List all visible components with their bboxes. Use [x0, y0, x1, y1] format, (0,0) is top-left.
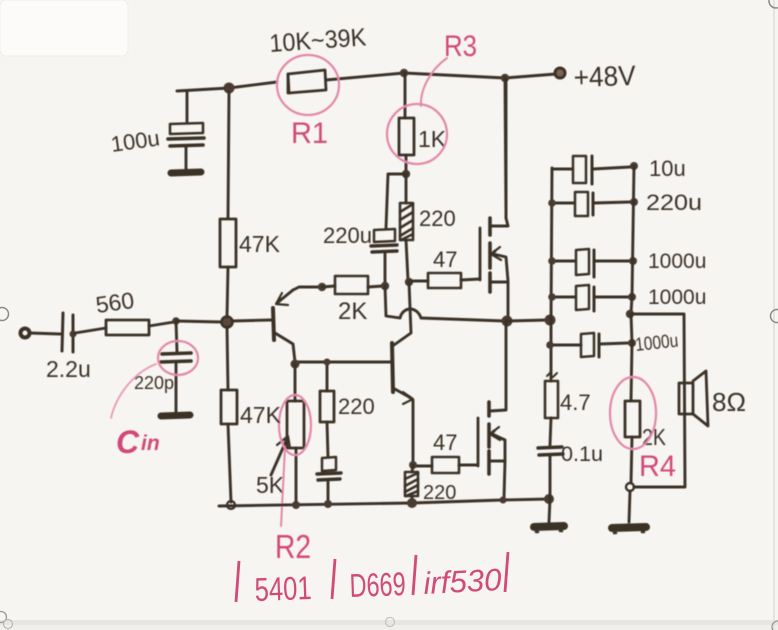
svg-text:8Ω: 8Ω: [712, 387, 746, 417]
label R2 (pink) with leader: [275, 448, 311, 565]
transistor Q1 collector: [275, 333, 295, 362]
wire top rail right of R1: [326, 73, 556, 80]
wire right rail to 2K R4: [631, 314, 632, 401]
annotation circle around R4 (pink): [610, 377, 656, 449]
MOSFET M2 channel bars: [487, 402, 491, 474]
capacitor 100u (electrolytic to ground): [168, 91, 204, 170]
svg-text:47K: 47K: [239, 231, 281, 257]
node 10u right: [630, 162, 638, 170]
node 220 lower on rail: [407, 498, 417, 508]
label 5K: [256, 472, 285, 498]
label 8ohm: [712, 387, 746, 417]
label R1 (pink): [291, 117, 328, 150]
label 560: [94, 287, 136, 318]
divider bar 3: [413, 555, 416, 595]
wire 2.2u to 560: [75, 328, 106, 333]
MOSFET M2 drain wire from output node: [490, 321, 506, 411]
capacitor 1000u #4: [552, 285, 628, 311]
wire 560 to node: [149, 322, 174, 326]
resistor 47K upper body: [220, 219, 236, 267]
svg-text:1000u: 1000u: [648, 286, 706, 309]
label 220 lower: [423, 482, 456, 504]
node cap bank rail: [545, 315, 556, 326]
wire bus from 2K node down and right with hop: [385, 286, 505, 321]
svg-text:+48V: +48V: [573, 60, 636, 93]
node M2 source on rail: [500, 497, 507, 504]
label 220 upper: [419, 206, 456, 231]
scan artifact: punch hole right bottom: [772, 621, 778, 630]
divider bar 1: [236, 561, 239, 602]
ground bar under 100u: [171, 172, 201, 173]
scan artifact: punch hole right middle: [771, 310, 778, 323]
input terminal: [21, 329, 30, 338]
node R2 on rail: [292, 501, 300, 509]
ground at R4: [612, 527, 646, 533]
wire bottom rail: [219, 499, 549, 506]
label 47K upper: [239, 231, 281, 257]
svg-text:220: 220: [338, 394, 375, 419]
+48V terminal: [555, 68, 565, 78]
capacitor 220u bank: [552, 192, 630, 216]
svg-text:irf530: irf530: [423, 562, 503, 601]
node 220 cap on rail: [324, 500, 332, 508]
label 0.1u: [561, 443, 603, 466]
transistor Q1 emitter with arrow: [276, 287, 320, 305]
scan artifact: punch hole left bottom: [0, 612, 7, 623]
node at R3 takeoff: [400, 69, 408, 77]
svg-text:R1: R1: [291, 117, 328, 150]
node right of 2K: [381, 282, 389, 290]
label 100u: [109, 125, 161, 157]
resistor 220 lower (hatched): [405, 465, 418, 502]
potentiometer R2 5K body: [287, 364, 304, 504]
svg-text:0.1u: 0.1u: [561, 443, 603, 466]
resistor R3 1K hanging from rail: [399, 73, 414, 170]
MOSFET M2 gate bar: [477, 418, 480, 466]
capacitor 1000u #3: [552, 249, 629, 277]
wire 47K upper to input bus: [227, 267, 228, 317]
node Q2 emitter / gate resistor junction: [409, 461, 417, 469]
label 2K R4: [642, 424, 667, 450]
capacitor 1000u #5: [550, 333, 628, 357]
node 1000u4 left: [548, 293, 556, 301]
node below 1K: [402, 170, 410, 178]
node above MOSFET drain: [501, 74, 509, 82]
speaker body: [679, 371, 708, 426]
svg-text:10u: 10u: [649, 156, 686, 181]
label 1000u #5: [634, 331, 679, 356]
capacitor 0.1u: [538, 447, 563, 498]
transistor Q1 5401 base bar: [273, 308, 274, 340]
node 1000u3 right: [629, 257, 637, 265]
node blob junction (circled): [222, 317, 233, 328]
label R4 (pink): [639, 450, 676, 483]
svg-text:47: 47: [433, 247, 457, 272]
node output junction: [502, 316, 513, 327]
MOSFET M1 channel bars: [488, 218, 492, 292]
label D669: [349, 565, 406, 604]
svg-text:220: 220: [419, 206, 456, 231]
label 2K: [338, 298, 367, 325]
node 47K on rail: [227, 501, 235, 509]
annotation circle around R2 (pink): [279, 395, 311, 455]
node at 220 mid top: [324, 359, 331, 366]
node 1000u3 left: [548, 257, 556, 265]
label 10u: [649, 156, 686, 181]
annotation circle around R1 (pink): [277, 55, 339, 115]
node 220p takeoff: [172, 317, 180, 325]
node 220u left: [548, 199, 556, 207]
svg-text:2.2u: 2.2u: [46, 356, 91, 382]
scan artifact: faint circle bottom middle: [386, 618, 395, 627]
capacitor bank right rail: [631, 166, 634, 313]
label 220 mid: [338, 394, 375, 419]
label 4.7: [560, 390, 591, 415]
node rail right end: [544, 494, 554, 504]
divider bar 2: [332, 559, 335, 599]
wire Q1 collector node to Q2 base: [295, 361, 390, 364]
svg-text:1000u: 1000u: [648, 250, 706, 273]
scan artifact: white label top-left: [0, 0, 128, 56]
annotation circle around 220p (pink): [158, 341, 198, 375]
scan artifact: right page edge line: [773, 0, 775, 630]
svg-text:R3: R3: [444, 30, 477, 63]
ground bar under 220p: [161, 415, 190, 416]
resistor 47K lower body: [221, 327, 237, 502]
ground at rail right: [534, 499, 564, 532]
label 47K lower: [240, 402, 282, 428]
node right rail corner: [626, 310, 634, 318]
capacitor 220u body: [371, 229, 397, 283]
scan artifact: punch hole right top corner: [769, 0, 778, 8]
resistor 2K body: [322, 276, 383, 294]
node 1000u5 left: [546, 341, 554, 349]
node 1000u5 right: [628, 339, 636, 347]
wire top rail left: [177, 82, 277, 91]
node top-left junction: [224, 83, 235, 94]
wire from top rail down to 47K upper: [228, 92, 229, 218]
label 1K: [418, 126, 447, 152]
resistor R4 2K body: [625, 401, 640, 483]
MOSFET M1 gate bar: [479, 228, 482, 280]
wire crossing under hop to Q2 collector: [394, 282, 411, 345]
svg-text:1000u: 1000u: [634, 331, 679, 356]
wire R4 bottom to ground: [629, 491, 630, 522]
divider bar 4: [505, 552, 508, 592]
transistor Q2 emitter with arrow: [393, 388, 413, 464]
svg-text:4.7: 4.7: [560, 390, 591, 415]
resistor R1 body: [288, 70, 326, 93]
svg-text:in: in: [141, 432, 160, 455]
svg-text:C: C: [116, 424, 140, 460]
node 1000u4 right: [628, 293, 636, 301]
capacitor 220u branch wire: [386, 174, 406, 228]
svg-text:2K: 2K: [338, 298, 367, 325]
resistor 220 upper (hatched): [400, 174, 413, 280]
MOSFET M1 substrate arrow: [491, 247, 508, 281]
label 1000u #3: [648, 250, 706, 273]
scan artifact: faint circle bottom left: [4, 620, 13, 629]
wire junction to Q1 base: [232, 320, 271, 321]
MOSFET M2 source lead: [490, 461, 505, 498]
label 1000u #4: [648, 286, 706, 309]
annotation circle around 1K (pink): [387, 104, 447, 164]
node Q1 collector: [291, 360, 300, 369]
node below 220 upper: [405, 278, 413, 286]
MOSFET M2 substrate arrow: [490, 427, 505, 461]
label 220u: [323, 223, 372, 248]
label Cin (pink) with leader: [111, 364, 160, 460]
wire output bus to cap bank: [507, 320, 548, 321]
resistor 47 upper gate body: [411, 273, 480, 288]
node 220u right: [630, 198, 638, 206]
svg-text:D669: D669: [349, 565, 406, 604]
label R3 (pink) with leader: [421, 30, 477, 106]
svg-text:47K: 47K: [240, 402, 282, 428]
label 5401: [254, 569, 312, 608]
svg-text:R4: R4: [639, 450, 676, 483]
capacitor below 220 mid: [317, 457, 341, 503]
scan artifact: punch hole left middle: [0, 308, 9, 321]
node Q1 emitter junction: [318, 283, 326, 291]
svg-text:R2: R2: [275, 528, 311, 565]
scan artifact: bottom edge shadow: [0, 620, 778, 630]
svg-text:220u: 220u: [646, 190, 702, 215]
MOSFET M1 source lead: [491, 282, 508, 318]
capacitor bank left rail: [551, 168, 552, 381]
label 2.2u: [46, 356, 91, 382]
resistor 220 mid body: [320, 362, 334, 457]
wire MOSFET drain from rail: [505, 78, 506, 218]
resistor 47 lower body: [416, 457, 477, 473]
label bottom pink parts list: [236, 552, 508, 608]
node R4 bottom: [626, 483, 634, 491]
capacitor 220p branch: [161, 321, 191, 412]
wire node to blob junction: [176, 321, 222, 322]
label 220u bank: [646, 190, 702, 215]
svg-text:220u: 220u: [323, 223, 372, 248]
MOSFET M1 drain lead: [491, 80, 508, 226]
label 47 lower: [433, 430, 457, 455]
label 47 upper: [433, 247, 457, 272]
label irf530: [423, 562, 503, 601]
label +48V: [573, 60, 636, 93]
wiper arrow of R2: [271, 436, 290, 475]
resistor 4.7 body: [545, 372, 558, 445]
resistor 560 body: [106, 320, 149, 335]
wire to speaker top: [631, 314, 685, 487]
capacitor 2.2u: [62, 313, 77, 352]
label 220p: [134, 373, 174, 393]
svg-text:220p: 220p: [134, 373, 174, 393]
svg-text:47: 47: [433, 430, 457, 455]
wire input to 2.2u: [30, 333, 60, 334]
label 10K~39K: [268, 23, 367, 58]
svg-text:5401: 5401: [254, 569, 312, 608]
capacitor 10u: [552, 156, 630, 184]
transistor Q2 D669 base bar: [392, 343, 393, 392]
svg-text:560: 560: [94, 287, 136, 318]
